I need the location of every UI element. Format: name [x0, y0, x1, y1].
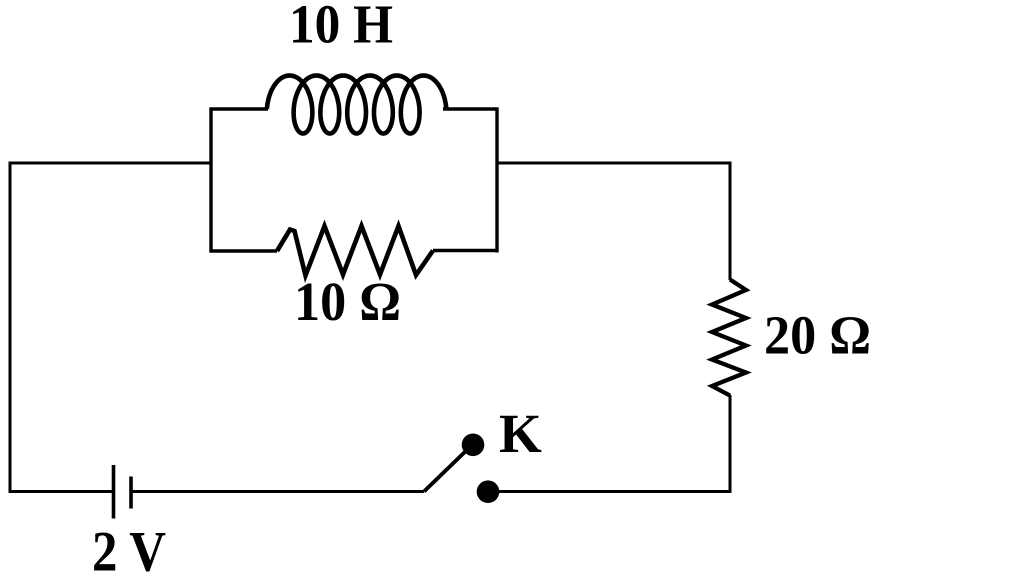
wire box top-left lead: [210, 107, 269, 110]
wire top right rail: [497, 163, 730, 280]
inductor 10 H coil (trochoid): [267, 76, 446, 134]
svg-text:20 Ω: 20 Ω: [764, 305, 871, 366]
resistor 20 ohm (vertical zigzag): [712, 280, 746, 396]
wire battery to switch blade: [131, 490, 424, 493]
battery 2V short plate: [129, 477, 133, 509]
svg-text:2 V: 2 V: [92, 521, 166, 580]
svg-text:K: K: [499, 403, 542, 464]
wire switch to 20-ohm resistor (bottom right): [492, 395, 730, 492]
resistor 10 ohm (horizontal zigzag): [277, 226, 433, 276]
switch K upper contact dot: [462, 434, 485, 457]
wire box bottom-left lead: [210, 249, 278, 252]
wire box top-right lead: [443, 107, 499, 110]
wire left loop (top rail to battery): [10, 163, 211, 492]
switch K lower contact dot: [477, 480, 500, 503]
svg-text:10 H: 10 H: [289, 0, 393, 55]
node left of parallel box: [209, 108, 212, 253]
switch K blade: [424, 447, 470, 492]
node right of parallel box: [495, 108, 498, 253]
battery 2V long plate: [112, 465, 116, 519]
wire box bottom-right lead: [433, 249, 499, 252]
svg-text:10 Ω: 10 Ω: [294, 271, 401, 332]
